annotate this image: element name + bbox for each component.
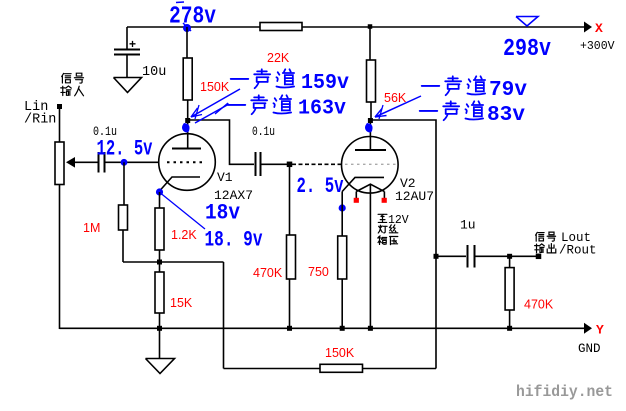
capacitor C1 10u: [114, 49, 140, 51]
resistor R6 15K: [155, 272, 164, 313]
ground G2 symbol: [159, 328, 161, 358]
tube V2 cathode: [342, 177, 384, 191]
svg-text:1.2K: 1.2K: [171, 228, 197, 242]
potentiometer VR1 wiper arrow: [66, 157, 75, 168]
svg-text:V1: V1: [217, 170, 233, 185]
svg-text:278v: 278v: [169, 4, 216, 31]
resistor R3 56K: [367, 60, 376, 102]
svg-text:hifidiy.net: hifidiy.net: [516, 383, 613, 401]
svg-text:/Rout: /Rout: [559, 244, 597, 258]
node pot-R6 ground junction: [157, 326, 162, 331]
svg-text:150K: 150K: [325, 346, 355, 360]
wire rail to R1: [186, 27, 188, 59]
resistor R2 22K: [260, 23, 302, 31]
wire R9 to ground bus: [509, 310, 511, 329]
wire R7 to ground bus: [289, 279, 291, 329]
potentiometer VR1 body: [55, 142, 64, 185]
annotation leader 159v: [191, 89, 240, 117]
wire pot bottom to ground bus: [59, 185, 61, 330]
node output tap junction: [434, 254, 439, 259]
svg-text:18v: 18v: [205, 201, 240, 226]
svg-text:150K: 150K: [200, 80, 230, 94]
node rail-R3 junction: [368, 24, 373, 29]
svg-text:GND: GND: [578, 342, 601, 356]
capacitor C2 0.1u: [98, 152, 100, 173]
svg-text:163v: 163v: [298, 98, 346, 121]
label input 信号输入: [62, 73, 71, 83]
wire R3 to V2 anode node: [370, 102, 372, 120]
node V2 anode junction: [368, 118, 373, 123]
node V2 grid junction: [287, 162, 293, 168]
svg-text:2. 5v: 2. 5v: [297, 174, 344, 199]
svg-text:470K: 470K: [524, 298, 554, 312]
terminal input dot: [57, 104, 62, 109]
wire V1 anode to C3: [188, 120, 254, 164]
svg-text:+300V: +300V: [580, 40, 615, 53]
svg-text:Y: Y: [596, 323, 604, 338]
wire tap to C4: [436, 255, 466, 257]
node R9 ground junction: [507, 326, 512, 331]
capacitor C3 0.1u: [255, 152, 257, 176]
terminal output dot: [536, 254, 542, 259]
node V1 cathode junction: [156, 188, 163, 195]
label output 信号输出: [536, 232, 545, 241]
node heater ground junction: [368, 326, 373, 331]
label 一声道83v: [420, 107, 438, 116]
wire R1 to V1 anode node: [187, 100, 189, 120]
node R7 ground junction: [287, 326, 292, 331]
node V1 anode junction: [185, 118, 190, 123]
svg-text:+: +: [129, 37, 136, 51]
terminal Y arrowhead: [584, 323, 592, 334]
resistor R10 150K: [320, 364, 363, 372]
wire top B+ rail: [127, 26, 585, 28]
wire V2 anode right and down: [370, 120, 436, 369]
svg-text:15K: 15K: [170, 296, 193, 310]
resistor R9 470K: [505, 268, 514, 310]
tube V1 cathode: [160, 177, 201, 191]
svg-text:X: X: [595, 21, 603, 36]
ground G1 below C1: [114, 78, 142, 93]
svg-text:12AU7: 12AU7: [395, 189, 434, 204]
wire node K to R6: [159, 262, 161, 272]
wire output to R9: [509, 256, 511, 268]
tube V2 anode: [369, 120, 371, 150]
node grid V1 junction: [121, 159, 128, 166]
node R8 ground junction: [340, 326, 345, 331]
resistor R1 150K: [183, 58, 192, 100]
annotation leader 163v: [195, 104, 229, 123]
wire R5 to node K: [159, 250, 161, 262]
node K junction: [157, 260, 162, 265]
svg-text:18. 9v: 18. 9v: [205, 228, 263, 253]
svg-text:56K: 56K: [384, 91, 407, 105]
node 278v junction: [185, 25, 189, 29]
wire ground bus Y: [60, 327, 586, 329]
wire cathode to R5: [159, 192, 161, 208]
svg-text:1M: 1M: [83, 221, 100, 235]
resistor R5 1.2K: [155, 208, 164, 250]
capacitor C1 10u lead: [126, 27, 128, 49]
heater pin right: [382, 198, 387, 203]
label 一声道163v: [228, 101, 246, 110]
svg-text:1u: 1u: [460, 218, 476, 233]
terminal X arrowhead: [584, 22, 592, 33]
label 278v: [176, 1, 184, 4]
capacitor C4 1u: [467, 245, 469, 268]
resistor R4 1M: [119, 205, 128, 230]
wire rail to R3: [369, 27, 371, 61]
leader line to 18.9v: [161, 194, 205, 230]
wire feedback bottom: [224, 368, 321, 370]
tube V1 anode: [187, 120, 189, 149]
wire input to pot: [59, 108, 61, 142]
svg-text:470K: 470K: [253, 266, 283, 280]
resistor R8 750: [338, 236, 347, 279]
wire R4 to cathode net: [122, 230, 124, 262]
terminal marker blue triangle: [516, 17, 538, 27]
tube V1 grid dashed: [167, 161, 206, 163]
svg-text:159v: 159v: [301, 72, 349, 95]
label 一声道79v: [422, 82, 440, 91]
tube V2 grid dashed: [345, 163, 396, 165]
svg-text:298v: 298v: [503, 36, 551, 63]
wire R8 to ground bus: [341, 279, 343, 329]
label 至12V灯丝稳压: [378, 214, 387, 222]
label 一声道159v: [231, 75, 249, 84]
wire grid dashed to V2: [292, 163, 342, 165]
tube V2 envelope: [342, 137, 399, 194]
svg-text:83v: 83v: [487, 104, 525, 127]
resistor R7 470K: [287, 235, 296, 279]
svg-text:10u: 10u: [142, 65, 166, 80]
annotation leader 79v: [375, 96, 421, 117]
wire node K to feedback: [160, 261, 224, 263]
svg-text:/Rin: /Rin: [24, 113, 56, 128]
tube V2 heater: [356, 184, 384, 191]
heater pin left: [354, 198, 359, 203]
wire cathode to R8: [341, 192, 343, 237]
wire heater tap to ground: [369, 184, 371, 329]
svg-text:0.1u: 0.1u: [252, 124, 275, 139]
tube V1 envelope: [159, 134, 216, 191]
wire junction to R7: [289, 164, 291, 235]
svg-text:22K: 22K: [267, 51, 290, 65]
node V2 cathode junction: [339, 204, 346, 211]
svg-text:12. 5v: 12. 5v: [97, 137, 153, 162]
svg-text:750: 750: [308, 265, 329, 279]
wire R6 to ground bus: [159, 313, 161, 329]
wire grid tap to R4: [123, 162, 125, 205]
node output junction: [507, 254, 512, 259]
svg-text:79v: 79v: [489, 79, 527, 102]
